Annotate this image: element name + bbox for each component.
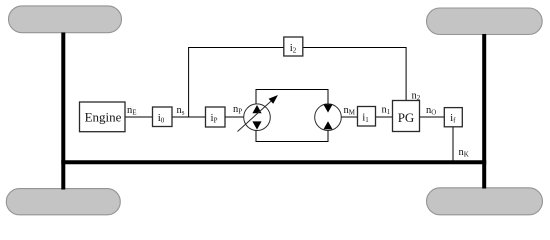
hydraulic line upper	[256, 90, 328, 105]
box gear ratio iP	[206, 107, 226, 127]
pump P (variable displacement)	[238, 95, 279, 132]
box final drive if	[444, 108, 462, 127]
wire if down to drive line (node nK)	[452, 127, 454, 161]
wire motor to i1	[341, 116, 357, 118]
box Engine	[80, 102, 126, 132]
box gear ratio i1	[358, 107, 376, 127]
svg-text:nP: nP	[233, 104, 242, 116]
wheel rear-right	[427, 188, 543, 215]
wire i1 to PG	[376, 116, 393, 118]
svg-text:n2: n2	[412, 91, 421, 103]
wheel front-left	[9, 6, 122, 33]
wire iP to pump	[225, 116, 244, 118]
wire top loop right vertical (i2 to PG node n2)	[303, 48, 406, 101]
svg-text:PG: PG	[398, 110, 415, 125]
svg-text:Engine: Engine	[85, 109, 122, 124]
svg-text:n1: n1	[382, 105, 391, 117]
hydraulic line lower	[256, 130, 328, 142]
svg-text:nO: nO	[426, 105, 436, 117]
drive line horizontal	[61, 160, 486, 164]
wire i0 to iP	[172, 116, 205, 118]
svg-text:nK: nK	[459, 147, 469, 159]
wire PG to if	[420, 116, 445, 118]
box planetary gear PG	[393, 101, 420, 132]
box gear ratio i0	[153, 107, 173, 127]
wire Engine to i0	[125, 116, 152, 118]
axle shaft right	[482, 34, 486, 189]
svg-text:ns: ns	[177, 105, 185, 117]
svg-text:nM: nM	[344, 105, 356, 117]
motor M (fixed displacement)	[315, 104, 342, 131]
axle shaft left	[61, 33, 65, 190]
wire top loop left vertical (node ns to i2)	[189, 48, 284, 118]
wheel front-right	[427, 8, 543, 35]
svg-text:nE: nE	[127, 105, 137, 117]
box gear ratio i2	[284, 37, 303, 56]
wheel rear-left	[6, 189, 120, 215]
